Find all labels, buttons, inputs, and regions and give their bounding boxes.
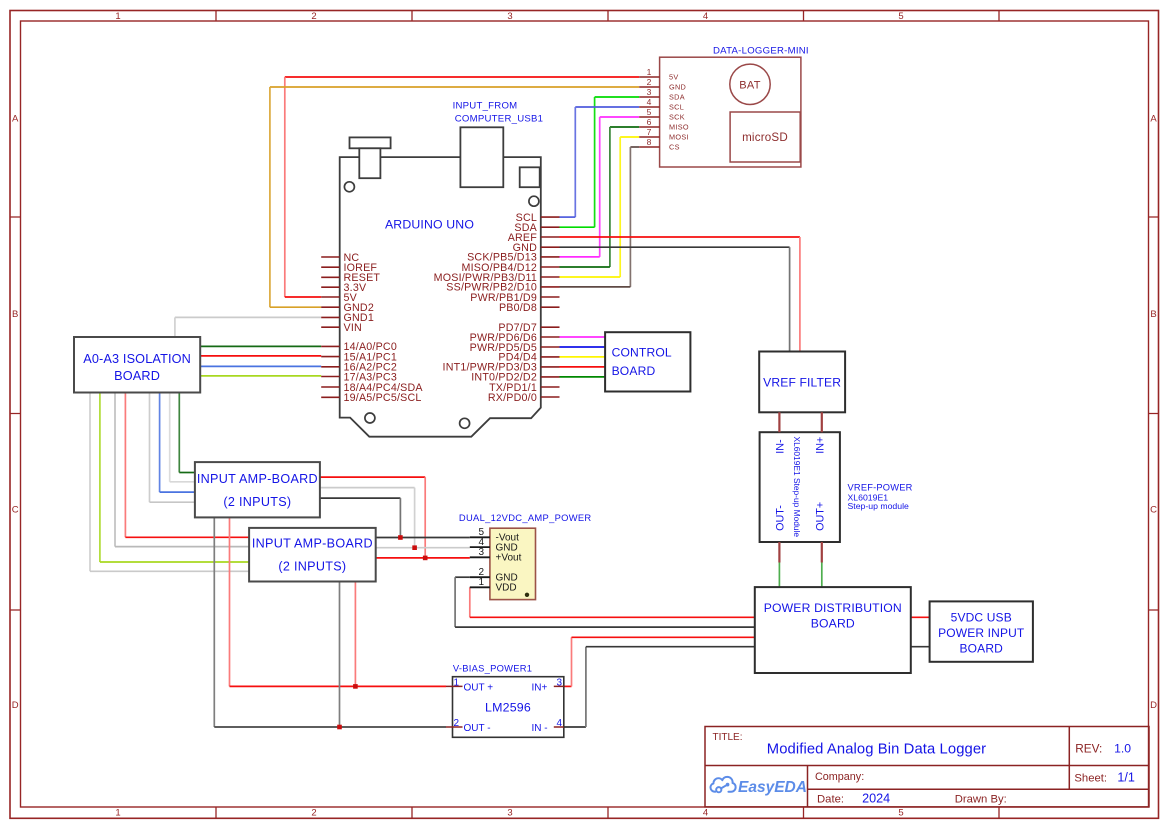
- svg-text:COMPUTER_USB1: COMPUTER_USB1: [455, 113, 544, 124]
- svg-text:IN+: IN+: [532, 682, 548, 693]
- regulator V-BIAS_POWER1 LM2596: [446, 663, 564, 738]
- svg-text:OUT -: OUT -: [464, 723, 491, 734]
- svg-text:3: 3: [478, 547, 484, 558]
- wire GND net (data-logger pin2 to Arduino GND2) orange: [270, 87, 639, 307]
- svg-text:B: B: [1150, 309, 1156, 320]
- wire SCK net magenta: [560, 117, 640, 257]
- svg-text:3: 3: [507, 11, 512, 22]
- svg-text:8: 8: [647, 137, 652, 147]
- wire isolation to amp1 blue: [160, 393, 195, 493]
- svg-text:POWER INPUT: POWER INPUT: [938, 626, 1025, 640]
- wire amp1 +Vout red: [320, 477, 425, 558]
- svg-text:VREF FILTER: VREF FILTER: [763, 375, 841, 389]
- wire PD6 to CONTROL BOARD magenta: [560, 336, 606, 338]
- svg-text:IN -: IN -: [532, 723, 548, 734]
- wire AREF to VREF FILTER red: [560, 237, 800, 352]
- wire MISO net dark green: [560, 127, 640, 267]
- wire power board to 5VDC board red: [911, 616, 930, 618]
- wire SCL net blue: [560, 107, 640, 217]
- svg-text:A: A: [12, 114, 19, 125]
- svg-text:INPUT AMP-BOARD: INPUT AMP-BOARD: [252, 536, 373, 550]
- svg-text:D: D: [12, 700, 19, 711]
- wire isolation to amp1 light grey: [170, 393, 195, 482]
- svg-text:GND: GND: [669, 83, 686, 92]
- svg-text:RX/PD0/0: RX/PD0/0: [488, 392, 537, 404]
- svg-text:BOARD: BOARD: [811, 616, 855, 630]
- svg-text:1: 1: [478, 577, 484, 588]
- svg-text:MISO: MISO: [669, 123, 689, 132]
- svg-text:TITLE:: TITLE:: [713, 732, 743, 743]
- wire XL6019 OUT- green: [778, 563, 780, 588]
- module A0-A3 ISOLATION BOARD: [74, 337, 200, 393]
- wire isolation to amp2 red: [125, 393, 249, 538]
- svg-text:A: A: [1150, 114, 1157, 125]
- wire PD4 to CONTROL BOARD yellow: [560, 356, 606, 358]
- wire PD2 to CONTROL BOARD green: [560, 376, 606, 378]
- svg-text:3: 3: [507, 808, 512, 819]
- wire 5V net (data-logger pin1 to Arduino 5V) red: [285, 77, 639, 297]
- svg-text:5VDC USB: 5VDC USB: [951, 610, 1012, 624]
- wire LM2596 IN- to power board dark grey: [564, 647, 755, 727]
- svg-text:2: 2: [311, 808, 316, 819]
- svg-text:IN+: IN+: [814, 437, 826, 454]
- svg-text:IN-: IN-: [774, 439, 786, 454]
- svg-text:6: 6: [647, 117, 652, 127]
- svg-text:Sheet:: Sheet:: [1074, 773, 1107, 785]
- power module DUAL_12VDC_AMP_POWER: [459, 512, 592, 600]
- svg-text:CONTROL: CONTROL: [612, 346, 672, 360]
- svg-text:V-BIAS_POWER1: V-BIAS_POWER1: [453, 663, 532, 674]
- svg-text:1: 1: [647, 67, 652, 77]
- svg-text:(2 INPUTS): (2 INPUTS): [278, 560, 346, 574]
- wire XL6019 OUT+ green: [821, 563, 823, 588]
- svg-text:19/A5/PC5/SCL: 19/A5/PC5/SCL: [344, 392, 422, 404]
- svg-text:Date:: Date:: [817, 793, 844, 805]
- svg-text:EasyEDA: EasyEDA: [738, 779, 807, 796]
- svg-text:microSD: microSD: [742, 131, 788, 144]
- wire dual VDD pin1 to power board red: [470, 587, 755, 617]
- svg-text:BAT: BAT: [739, 79, 760, 91]
- wire amp1 GND light grey: [320, 488, 415, 548]
- wire amp1 -Vout dark grey: [320, 498, 401, 537]
- module POWER DISTRIBUTION BOARD: [755, 587, 911, 673]
- wire amp2 V+ vertical red: [354, 582, 356, 687]
- wire A1 to isolation board red: [200, 355, 321, 357]
- svg-text:5V: 5V: [669, 73, 679, 82]
- svg-text:Company:: Company:: [815, 771, 864, 783]
- module INPUT AMP-BOARD 1: [195, 462, 320, 517]
- svg-text:BOARD: BOARD: [114, 369, 160, 383]
- svg-text:INPUT_FROM: INPUT_FROM: [453, 100, 518, 111]
- svg-text:1/1: 1/1: [1117, 771, 1135, 785]
- svg-text:C: C: [1150, 505, 1157, 516]
- svg-text:D: D: [1150, 700, 1157, 711]
- svg-text:3: 3: [647, 87, 652, 97]
- svg-text:(2 INPUTS): (2 INPUTS): [223, 495, 291, 509]
- svg-text:REV:: REV:: [1075, 741, 1102, 755]
- svg-text:1: 1: [115, 808, 120, 819]
- wire amp2 to dual -Vout dark grey: [376, 537, 470, 539]
- label INPUT_FROM COMPUTER_USB1: [453, 100, 544, 124]
- wire MOSI net yellow: [560, 137, 640, 277]
- wire isolation to amp1 dark green: [179, 393, 195, 473]
- wire isolation to amp1 grey: [150, 393, 195, 503]
- svg-text:5: 5: [898, 808, 903, 819]
- wire PD5 to CONTROL BOARD blue: [560, 346, 606, 348]
- wire GND1 to isolation board light grey: [175, 317, 321, 337]
- wire A0 to isolation board dark green: [200, 345, 321, 347]
- svg-text:POWER DISTRIBUTION: POWER DISTRIBUTION: [764, 601, 902, 615]
- svg-text:SCL: SCL: [669, 103, 684, 112]
- wire isolation to amp2 grey: [115, 393, 249, 547]
- svg-text:DATA-LOGGER-MINI: DATA-LOGGER-MINI: [713, 46, 809, 57]
- svg-text:2: 2: [311, 11, 316, 22]
- EasyEDA logo: [710, 777, 806, 796]
- wire amp1 V+ to LM2596 OUT+ red: [230, 517, 447, 686]
- svg-text:CS: CS: [669, 143, 680, 152]
- module CONTROL BOARD: [605, 332, 690, 391]
- junction dots: [337, 535, 427, 729]
- wire amp2 V- vertical dark grey: [339, 582, 341, 728]
- svg-text:OUT-: OUT-: [774, 505, 786, 531]
- wire SDA net green: [560, 97, 640, 227]
- wire CS net brown: [560, 147, 640, 287]
- svg-text:Modified Analog Bin Data Logge: Modified Analog Bin Data Logger: [767, 742, 986, 758]
- svg-text:Step-up module: Step-up module: [848, 501, 910, 511]
- wire amp1 V- to LM2596 OUT- dark grey: [214, 517, 446, 727]
- svg-text:4: 4: [703, 808, 708, 819]
- svg-text:VREF-POWER: VREF-POWER: [848, 483, 913, 493]
- step-up module VREF-POWER XL6019E1: [760, 412, 913, 562]
- svg-text:A0-A3 ISOLATION: A0-A3 ISOLATION: [83, 352, 191, 366]
- svg-text:VDD: VDD: [496, 583, 517, 594]
- module INPUT AMP-BOARD 2: [249, 528, 376, 582]
- module VREF FILTER: [759, 352, 845, 413]
- svg-text:OUT +: OUT +: [464, 682, 494, 693]
- wire isolation to amp2 light grey: [90, 393, 249, 572]
- svg-text:7: 7: [647, 127, 652, 137]
- svg-text:MOSI: MOSI: [669, 133, 689, 142]
- svg-text:+Vout: +Vout: [496, 553, 522, 564]
- svg-text:BOARD: BOARD: [960, 641, 1004, 655]
- wire power board to 5VDC board dark grey: [911, 646, 930, 648]
- svg-text:SDA: SDA: [669, 93, 685, 102]
- svg-text:VIN: VIN: [344, 322, 362, 334]
- data-logger module U2 DATA-LOGGER-MINI: [639, 46, 809, 168]
- svg-text:2024: 2024: [862, 791, 890, 805]
- svg-text:5: 5: [898, 11, 903, 22]
- wire dual GND pin2 to power board dark grey: [455, 577, 755, 627]
- Arduino UNO U1: [321, 127, 559, 436]
- svg-text:PB0/D8: PB0/D8: [499, 302, 537, 314]
- svg-text:B: B: [12, 309, 18, 320]
- wire amp2 to dual +Vout red: [376, 557, 470, 559]
- svg-text:LM2596: LM2596: [485, 700, 531, 714]
- svg-text:DUAL_12VDC_AMP_POWER: DUAL_12VDC_AMP_POWER: [459, 512, 592, 523]
- title block: [705, 727, 1149, 807]
- svg-text:INPUT AMP-BOARD: INPUT AMP-BOARD: [197, 472, 318, 486]
- wire A2 to isolation board blue: [200, 365, 321, 367]
- svg-text:BOARD: BOARD: [612, 364, 656, 378]
- wire amp2 to dual GND light grey: [376, 547, 470, 549]
- svg-text:2: 2: [647, 77, 652, 87]
- svg-text:1.0: 1.0: [1114, 741, 1131, 755]
- svg-text:5: 5: [647, 107, 652, 117]
- svg-text:SCK: SCK: [669, 113, 685, 122]
- svg-text:4: 4: [647, 97, 652, 107]
- svg-text:ARDUINO UNO: ARDUINO UNO: [385, 217, 474, 231]
- svg-text:4: 4: [703, 11, 708, 22]
- svg-text:C: C: [12, 505, 19, 516]
- svg-text:1: 1: [115, 11, 120, 22]
- wire LM2596 IN+ to power board red: [564, 637, 755, 686]
- svg-text:Drawn By:: Drawn By:: [955, 793, 1007, 805]
- svg-text:OUT+: OUT+: [814, 502, 826, 531]
- wire isolation to amp2 yellow-green: [100, 393, 249, 563]
- wire GND to VREF FILTER dark grey: [560, 247, 790, 351]
- wire PD3 to CONTROL BOARD red: [560, 366, 606, 368]
- wire A3 to isolation board yellow-green: [200, 375, 321, 377]
- module 5VDC USB POWER INPUT BOARD: [930, 601, 1033, 661]
- svg-text:XL6019E1 Step-up Module: XL6019E1 Step-up Module: [792, 437, 802, 538]
